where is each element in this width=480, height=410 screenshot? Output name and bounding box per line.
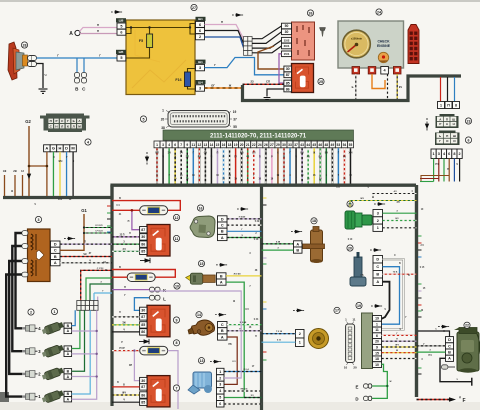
svg-text:Л: Л: [61, 125, 63, 129]
wire: bus bottom to F (red): [417, 399, 451, 401]
wire: G1 down to module C (brown): [60, 214, 84, 250]
svg-text:50: 50: [285, 24, 289, 28]
svg-text:13: 13: [200, 359, 204, 363]
wire: cluster pin1 to harness (black/white): [355, 74, 357, 99]
connector 4 housing: [40, 114, 90, 133]
svg-text:Г 0 30: Г 0 30: [276, 331, 283, 333]
svg-text:23: 23: [250, 80, 254, 84]
pins A B of 18: [294, 241, 303, 247]
TPS pins D C B A: [218, 216, 228, 222]
svg-text:87: 87: [286, 73, 290, 77]
continuation arrow near 19: [371, 305, 383, 308]
wires: 21 to bus: [383, 212, 417, 214]
pump ground T: [471, 378, 473, 386]
continuation arrow near 13: [210, 360, 222, 363]
svg-text:7: 7: [176, 386, 178, 390]
svg-text:ЗП: ЗП: [186, 157, 189, 159]
svg-text:0 48: 0 48: [254, 238, 259, 241]
svg-text:5: 5: [120, 56, 122, 60]
ground arrow under relay 11: [140, 258, 150, 263]
O2 ground wire (green, long vertical): [224, 282, 244, 397]
label 12: [173, 214, 179, 220]
wire: A to Sh8 pin5 (pink): [80, 28, 118, 32]
svg-text:86: 86: [141, 393, 145, 397]
svg-text:87: 87: [141, 385, 145, 389]
module HT terminals: [22, 231, 28, 236]
svg-text:30: 30: [141, 379, 145, 383]
svg-text:П: П: [50, 119, 52, 123]
svg-text:C: C: [54, 249, 57, 253]
svg-text:B: B: [221, 230, 224, 234]
svg-text:C: C: [448, 344, 451, 348]
node A: [75, 30, 80, 35]
wires: 17 to bus (shielded pair): [262, 333, 296, 335]
svg-text:2: 2: [459, 152, 461, 156]
svg-text:x100/min: x100/min: [351, 37, 363, 41]
label 7: [173, 385, 179, 391]
svg-text:20: 20: [375, 340, 379, 344]
svg-text:85: 85: [141, 323, 145, 327]
continuation arrow near 17: [293, 309, 305, 312]
svg-text:С СЗЧ: С СЗЧ: [97, 268, 104, 270]
svg-text:Ж 0 48: Ж 0 48: [234, 272, 242, 275]
svg-text:4: 4: [219, 389, 221, 393]
wire: bus to connector c (blue): [454, 77, 456, 101]
fuse box 27 (mounting block): [126, 20, 195, 95]
module pin B: [51, 253, 61, 259]
injector pin boxes B/A: [64, 323, 72, 402]
label 16: [197, 205, 203, 211]
svg-text:2: 2: [219, 376, 221, 380]
svg-text:Р: Р: [55, 119, 57, 123]
svg-text:15: 15: [200, 262, 204, 266]
fuse F16: [185, 72, 191, 87]
wire: Sh1-2 to ignition connector (dark blue): [205, 37, 244, 48]
node B connector: [76, 58, 78, 73]
connector Sh4 pin 3: [196, 80, 206, 84]
fuel pump relay 9: [140, 305, 170, 337]
svg-text:Ж: Ж: [228, 84, 232, 88]
svg-text:C: C: [221, 223, 224, 227]
svg-text:B: B: [54, 255, 57, 259]
svg-text:9: 9: [186, 143, 188, 147]
svg-text:24: 24: [258, 143, 262, 147]
wire: Sh4-3 to harness (orange/yellow): [205, 87, 242, 89]
ignition switch pin 15/2: [282, 37, 292, 43]
svg-text:П: П: [124, 286, 126, 289]
idle air control valve 13: [188, 372, 212, 394]
svg-text:3: 3: [38, 218, 40, 222]
diagnostic connector 19 pictorial: [346, 322, 355, 366]
svg-text:11: 11: [175, 237, 179, 241]
ground arrow at ECU left: [145, 152, 148, 165]
wire: pump D feed (black): [418, 331, 450, 337]
svg-text:Н: Н: [453, 122, 455, 126]
svg-text:12: 12: [198, 143, 202, 147]
svg-text:73 Б: 73 Б: [393, 272, 398, 274]
svg-text:ЖЧ: ЖЧ: [349, 153, 353, 155]
svg-text:ЗЧ: ЗЧ: [168, 153, 171, 155]
svg-text:30: 30: [141, 309, 145, 313]
svg-text:Л: Л: [73, 125, 75, 129]
wire: pump B (green): [417, 351, 446, 353]
fuel pump pins D C B A: [446, 337, 454, 343]
continuation arrow near 21: [374, 203, 386, 206]
svg-text:37: 37: [233, 117, 237, 121]
cluster pin 2: [368, 67, 376, 75]
svg-text:Ш1: Ш1: [198, 17, 203, 21]
svg-text:ЗЧ: ЗЧ: [180, 153, 183, 155]
svg-text:СЧ С/З: СЧ С/З: [95, 231, 103, 233]
svg-text:G1: G1: [81, 208, 87, 213]
svg-text:B: B: [448, 350, 451, 354]
connector 23 (instrument harness): [436, 114, 459, 128]
svg-text:15: 15: [216, 143, 220, 147]
svg-text:87: 87: [141, 228, 145, 232]
svg-text:55: 55: [233, 125, 237, 129]
O2 pins B A: [217, 273, 227, 279]
svg-text:Р: Р: [439, 122, 441, 126]
svg-text:L: L: [163, 296, 166, 301]
wire: horn ground (black): [37, 64, 44, 89]
svg-text:46: 46: [318, 143, 322, 147]
continuation arrow near 16: [237, 208, 249, 211]
svg-text:30: 30: [282, 143, 286, 147]
svg-text:F5: F5: [139, 39, 143, 43]
label 9: [173, 317, 179, 323]
svg-text:Ж: Ж: [396, 350, 398, 352]
svg-text:48: 48: [324, 143, 328, 147]
instrument cluster 24: [338, 21, 404, 68]
svg-text:ПБ 0 4: ПБ 0 4: [241, 388, 249, 391]
fuse box internal wiring: [126, 24, 195, 90]
wire harness bus: right vertical trunk: [415, 185, 418, 397]
svg-text:8: 8: [176, 341, 178, 345]
svg-text:9: 9: [376, 346, 378, 350]
svg-text:3: 3: [199, 86, 201, 90]
label 27: [191, 4, 197, 10]
cluster pin 4 (lamp): [381, 67, 389, 75]
svg-text:П 5/29: П 5/29: [239, 216, 246, 218]
module pin A: [51, 260, 61, 266]
fuse 10 feed (red): [112, 270, 175, 278]
svg-text:3: 3: [438, 152, 440, 156]
wires: G1 junction to bus (dark dash): [84, 227, 112, 229]
svg-text:ОГ: ОГ: [211, 84, 215, 88]
svg-text:F: F: [462, 398, 465, 404]
svg-text:Ч: Ч: [45, 73, 47, 77]
svg-text:G: G: [52, 146, 55, 151]
wire: 14 A to IAC pin3 (maroon): [224, 337, 237, 384]
wire: cluster pin3 (black): [396, 74, 398, 99]
svg-text:КЧ: КЧ: [399, 86, 403, 89]
svg-text:8: 8: [455, 103, 457, 107]
wires: 14 to bus: [227, 324, 262, 326]
svg-text:ЖЧ: ЖЧ: [395, 345, 399, 347]
svg-text:П: П: [128, 220, 130, 223]
svg-text:Ж: Ж: [390, 381, 392, 383]
wire: fuse 8 left junction down to relay 7 pin30 (lavender): [134, 351, 139, 381]
wire harness bus: left engine bus: [3, 186, 112, 198]
label 1: [51, 308, 57, 314]
wire: 20 D white loop to connector 19 pin 11: [382, 259, 404, 329]
svg-text:Ш: Ш: [453, 134, 456, 138]
svg-text:86: 86: [141, 330, 145, 334]
camshaft position sensor 14: [188, 320, 215, 335]
svg-text:10: 10: [175, 284, 179, 288]
continuation arrow near 18: [291, 230, 303, 233]
spark plugs 2: [22, 325, 41, 400]
svg-text:44: 44: [306, 143, 310, 147]
svg-text:6: 6: [376, 334, 378, 338]
svg-text:КЧ: КЧ: [233, 361, 236, 363]
bus stub marks right trunk: [418, 236, 422, 374]
svg-text:19: 19: [234, 143, 238, 147]
bus stub marks left trunk: [107, 206, 111, 232]
injector signal wires below grid: [72, 310, 98, 399]
svg-text:A: A: [296, 242, 299, 246]
MAP/fuel vapor valve 18: [303, 227, 325, 264]
svg-text:5: 5: [143, 117, 145, 121]
svg-text:Н: Н: [55, 125, 57, 129]
wires below right pin row: [434, 159, 460, 182]
svg-text:1: 1: [299, 341, 301, 345]
ECU connector 5 (pictorial): [168, 111, 230, 128]
svg-text:ЗП: ЗП: [396, 202, 399, 204]
wires: connector 19 to bus: [382, 334, 417, 336]
svg-text:ЖЧ: ЖЧ: [58, 160, 62, 163]
fuse 12 feed wire (red): [112, 201, 180, 211]
svg-text:1: 1: [219, 370, 221, 374]
svg-text:2: 2: [199, 35, 201, 39]
svg-text:Ш5: Ш5: [119, 50, 124, 54]
svg-text:П: П: [97, 23, 99, 27]
connector Sh5: [116, 50, 126, 54]
injector harness connector grid: [77, 301, 98, 311]
svg-text:18: 18: [228, 143, 232, 147]
svg-text:РЧ: РЧ: [435, 163, 439, 166]
ignition switch pin 30/1: [282, 43, 292, 49]
wire: fuse 8 right side down (lavender): [168, 351, 178, 409]
connector 19 pin boxes: [373, 316, 382, 368]
svg-text:П: П: [97, 29, 99, 33]
wire: connector 19 pin 10 to E/D (green): [372, 364, 388, 398]
svg-text:Г: Г: [67, 119, 69, 123]
svg-text:D: D: [376, 258, 379, 262]
IAC pins 1-6: [217, 368, 225, 374]
svg-text:F16: F16: [175, 78, 181, 82]
label 8: [173, 340, 179, 346]
wire: horn to B C and fuse box Sh5 (blue): [37, 57, 118, 59]
ECU part number bar: [163, 130, 354, 140]
svg-text:11: 11: [192, 143, 196, 147]
svg-text:К: К: [67, 125, 69, 129]
fuse F5: [147, 34, 153, 48]
small connector at pump: [442, 365, 448, 369]
svg-text:П: П: [447, 168, 449, 171]
svg-text:0 10: 0 10: [348, 239, 353, 241]
svg-text:22: 22: [252, 143, 256, 147]
svg-text:4: 4: [87, 140, 89, 144]
wire harness bus: center vertical trunk: [260, 185, 263, 410]
fuse 8 feed (pink/red): [112, 350, 140, 352]
left bus brown stubs: [4, 175, 6, 196]
module pin C: [51, 247, 61, 253]
sensor 21 pins 3 2 1: [373, 210, 383, 217]
svg-text:ЧК: ЧК: [83, 253, 87, 256]
node C connector: [83, 58, 85, 73]
svg-text:23: 23: [467, 119, 471, 123]
svg-text:A: A: [448, 357, 451, 361]
svg-text:19: 19: [357, 304, 361, 308]
svg-text:B: B: [296, 248, 299, 252]
svg-text:В: В: [119, 197, 121, 200]
svg-text:5: 5: [120, 24, 122, 28]
svg-text:4Ч: 4Ч: [394, 190, 397, 193]
wire: 20 B to bus (red dash): [383, 273, 417, 275]
svg-text:11: 11: [352, 318, 356, 322]
svg-text:СП: СП: [336, 187, 340, 189]
red connector block: [408, 25, 419, 64]
svg-text:45: 45: [312, 143, 316, 147]
ECU wire labels: [155, 153, 352, 181]
svg-text:30/1: 30/1: [284, 44, 290, 48]
label 17: [334, 307, 340, 313]
svg-text:9: 9: [176, 318, 178, 322]
K-line connector: [112, 289, 149, 291]
svg-text:П: П: [84, 241, 86, 244]
svg-text:15/1: 15/1: [284, 52, 290, 56]
ground arrow right side: [425, 118, 428, 131]
svg-text:МБ: МБ: [240, 153, 244, 155]
svg-text:24: 24: [377, 10, 381, 14]
svg-text:27: 27: [192, 6, 196, 10]
svg-text:ЖЧ: ЖЧ: [122, 393, 126, 395]
coolant temperature sensor 21: [345, 211, 372, 229]
svg-text:28: 28: [23, 43, 27, 47]
svg-text:85: 85: [141, 250, 145, 254]
label 19: [356, 302, 362, 308]
sensor 20 pins D C B A: [373, 256, 383, 264]
wires: 18 to bus: [262, 243, 294, 245]
svg-text:3: 3: [377, 212, 379, 216]
fuse 10 left wire (red): [112, 276, 127, 278]
label 5: [140, 116, 146, 122]
svg-text:2111-1411020-70, 2111-1411020-: 2111-1411020-70, 2111-1411020-71: [210, 134, 307, 140]
svg-text:15/2: 15/2: [284, 38, 290, 42]
horn terminal pins: [28, 56, 37, 61]
label 22: [464, 322, 470, 328]
svg-text:26: 26: [264, 143, 268, 147]
svg-text:0 15: 0 15: [420, 267, 425, 269]
svg-text:C: C: [221, 323, 224, 327]
svg-text:20: 20: [161, 117, 165, 121]
label 14: [196, 312, 202, 318]
injectors 1: [41, 320, 64, 404]
svg-text:1: 1: [433, 152, 435, 156]
wire: A to Sh8 pin6 (pink): [80, 33, 117, 35]
wire: relay 86 to ground: [267, 89, 284, 97]
svg-text:2: 2: [377, 219, 379, 223]
svg-text:D: D: [221, 217, 224, 221]
svg-text:43: 43: [300, 143, 304, 147]
svg-text:ЗЧ: ЗЧ: [251, 395, 254, 397]
svg-text:РБ: РБ: [198, 157, 202, 159]
svg-text:85: 85: [141, 400, 145, 404]
wire harness bus: left vertical trunk: [110, 185, 113, 406]
svg-text:6: 6: [199, 29, 201, 33]
svg-text:A: A: [45, 146, 48, 151]
svg-text:П: П: [446, 134, 448, 138]
wires: IAC to bus: [224, 371, 262, 373]
bus stub marks center trunk: [263, 198, 267, 360]
svg-text:СЧ: СЧ: [204, 153, 208, 155]
svg-text:2: 2: [30, 310, 32, 314]
svg-text:П 0 4: П 0 4: [243, 368, 249, 371]
svg-text:В: В: [119, 266, 121, 269]
svg-text:1З: 1З: [21, 170, 24, 173]
wires merging to ECU rail corner: [420, 181, 434, 183]
ground arrow on G2 wire: [27, 174, 30, 178]
L-line connector: [134, 298, 149, 311]
svg-text:4: 4: [168, 143, 170, 147]
horn 28: [8, 42, 37, 80]
svg-text:22: 22: [465, 323, 469, 327]
continuation arrow top-left of fuse box: [111, 11, 123, 14]
label 15: [198, 260, 204, 266]
svg-text:D: D: [54, 242, 57, 246]
wires: switch pins to connector grid (black): [252, 26, 282, 39]
svg-text:П: П: [446, 117, 448, 121]
svg-text:5: 5: [219, 396, 221, 400]
svg-text:8: 8: [453, 152, 455, 156]
wire: 20 A black to connector 19 pin 19: [382, 282, 390, 319]
svg-text:C: C: [376, 265, 379, 269]
wire harness bus: fuse box to instrument cluster feed: [243, 76, 462, 101]
svg-text:3: 3: [219, 383, 221, 387]
fuse 10: [127, 273, 155, 282]
wires: bus to relay 11: [112, 236, 140, 238]
svg-text:19: 19: [375, 317, 379, 321]
label 18: [311, 218, 317, 224]
svg-text:1: 1: [54, 310, 56, 314]
svg-text:B: B: [376, 273, 379, 277]
svg-text:20: 20: [348, 246, 352, 250]
connector 4 pin row A G H D M: [44, 145, 51, 152]
svg-text:11: 11: [375, 328, 379, 332]
knock sensor pins 2 1: [296, 330, 305, 339]
label 3: [35, 216, 41, 222]
svg-text:П: П: [447, 103, 450, 107]
wire: switch 30/1 to main relay 30 (brown): [258, 46, 284, 69]
svg-text:B: B: [221, 329, 224, 333]
label 23: [465, 118, 471, 124]
svg-text:Б: Б: [352, 85, 354, 89]
svg-text:D: D: [448, 338, 451, 342]
wire: Sh1-3 to main relay 87 (blue): [205, 58, 285, 75]
svg-text:16: 16: [199, 206, 203, 210]
connector Sh8: [116, 18, 126, 22]
svg-text:1: 1: [376, 322, 378, 326]
relay 11: [140, 225, 170, 257]
svg-text:1: 1: [377, 226, 379, 230]
svg-text:И: И: [453, 139, 455, 143]
svg-text:17: 17: [335, 309, 339, 313]
wires: bus to relay 9: [112, 316, 140, 318]
svg-text:1: 1: [440, 103, 442, 107]
three accessory connectors: [438, 102, 445, 109]
svg-text:КЧ: КЧ: [245, 309, 248, 311]
